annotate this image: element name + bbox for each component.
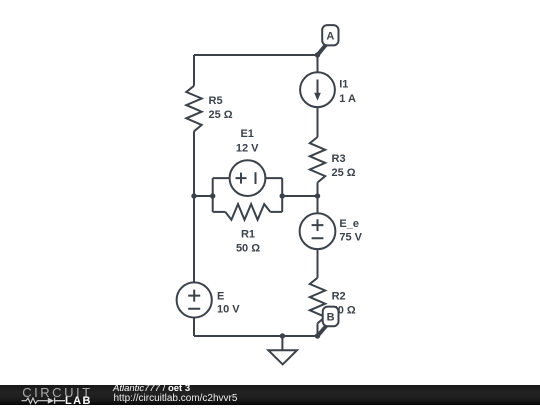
svg-text:12 V: 12 V <box>236 143 259 155</box>
svg-text:50 Ω: 50 Ω <box>236 243 260 255</box>
svg-text:R5: R5 <box>209 95 223 107</box>
svg-text:25 Ω: 25 Ω <box>332 167 356 179</box>
svg-text:R2: R2 <box>332 291 346 303</box>
svg-text:25 Ω: 25 Ω <box>209 109 233 121</box>
svg-text:R3: R3 <box>332 153 346 165</box>
svg-text:75 V: 75 V <box>339 231 362 243</box>
svg-text:R1: R1 <box>241 228 255 240</box>
svg-text:A: A <box>326 30 334 42</box>
svg-text:E_e: E_e <box>339 218 359 230</box>
svg-text:I1: I1 <box>339 79 348 91</box>
svg-text:E: E <box>217 290 224 302</box>
svg-text:B: B <box>327 312 335 324</box>
svg-text:10 V: 10 V <box>217 303 240 315</box>
svg-text:1 A: 1 A <box>339 93 356 105</box>
svg-text:E1: E1 <box>240 128 253 140</box>
